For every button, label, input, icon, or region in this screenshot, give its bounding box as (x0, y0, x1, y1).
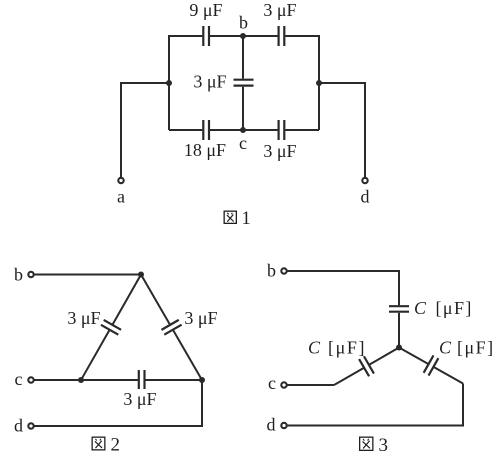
svg-text:d: d (361, 187, 370, 207)
wire terminal d lead (319, 83, 365, 177)
svg-text:b: b (14, 265, 23, 285)
capacitor 3 uF bottom-right plates (279, 120, 285, 140)
wire bottom right (285, 129, 319, 131)
wire terminal a lead (121, 83, 169, 177)
wire bottom mid (210, 129, 278, 131)
node b (240, 33, 246, 39)
svg-text:C[μF]: C[μF] (414, 298, 473, 318)
svg-text:9 μF: 9 μF (189, 0, 222, 20)
label fig2 (92, 435, 120, 456)
node right vertex fig2 (199, 377, 205, 383)
wire d lead (35, 380, 203, 426)
svg-text:18 μF: 18 μF (184, 140, 226, 160)
right triangle side with capacitor (132, 269, 210, 385)
label fig1 (224, 209, 251, 229)
svg-text:c: c (15, 369, 23, 389)
svg-text:C[μF]: C[μF] (439, 338, 495, 358)
wire top row left (fig1) (169, 36, 202, 130)
wire node b to middle capacitor (242, 36, 244, 79)
terminal a (118, 178, 123, 183)
svg-text:3 μF: 3 μF (184, 308, 217, 328)
svg-text:3 μF: 3 μF (123, 389, 156, 409)
svg-text:3 μF: 3 μF (263, 0, 296, 20)
left triangle side with capacitor (72, 270, 149, 385)
label fig3 (360, 435, 388, 456)
wire c lead fig3 (288, 384, 335, 386)
wire top mid (210, 35, 278, 37)
terminal c fig3 (281, 382, 286, 387)
svg-text:3: 3 (379, 435, 389, 456)
wire b lead fig3 (288, 271, 400, 305)
wire b to apex (35, 274, 142, 276)
svg-text:3 μF: 3 μF (193, 72, 226, 92)
node c (240, 127, 246, 133)
svg-text:b: b (267, 261, 276, 281)
wire c to left vertex (35, 379, 82, 381)
terminal c fig2 (28, 377, 33, 382)
wire cap to center node fig3 (398, 313, 400, 348)
svg-text:2: 2 (111, 435, 121, 456)
svg-text:3 μF: 3 μF (263, 141, 296, 161)
junction left mid (166, 80, 172, 86)
node center fig3 (396, 345, 402, 351)
wire bottom row left (169, 129, 202, 131)
left branch with capacitor fig3 (329, 339, 404, 394)
terminal b fig2 (28, 272, 33, 277)
terminal d fig2 (28, 423, 33, 428)
svg-text:d: d (267, 415, 276, 435)
capacitor C vertical plates fig3 (389, 306, 409, 312)
node left vertex fig2 (78, 377, 84, 383)
junction right mid (316, 80, 322, 86)
svg-text:c: c (239, 133, 247, 153)
svg-text:C[μF]: C[μF] (308, 338, 366, 358)
svg-text:1: 1 (242, 209, 251, 229)
wire left vertex to cap (81, 379, 138, 381)
capacitor 18 uF plates (203, 120, 209, 140)
node apex fig2 (138, 272, 144, 278)
svg-text:d: d (14, 416, 23, 436)
svg-text:c: c (268, 373, 276, 393)
wire cap to right vertex (145, 379, 202, 381)
terminal b fig3 (281, 268, 286, 273)
terminal d fig3 (281, 423, 286, 428)
capacitor 3 uF fig2 bottom plates (139, 370, 145, 389)
svg-text:a: a (117, 187, 125, 207)
svg-text:b: b (239, 13, 248, 33)
wire right branch down fig3 (288, 384, 464, 426)
capacitor 3 uF top-right plates (279, 26, 285, 46)
right branch with capacitor fig3 (394, 339, 468, 392)
capacitor 9 uF plates (203, 26, 209, 46)
wire middle capacitor to node c (242, 87, 244, 130)
wire top row right (285, 36, 319, 130)
svg-text:3 μF: 3 μF (67, 308, 100, 328)
capacitor 3 uF middle plates (234, 80, 254, 86)
terminal d (362, 178, 367, 183)
